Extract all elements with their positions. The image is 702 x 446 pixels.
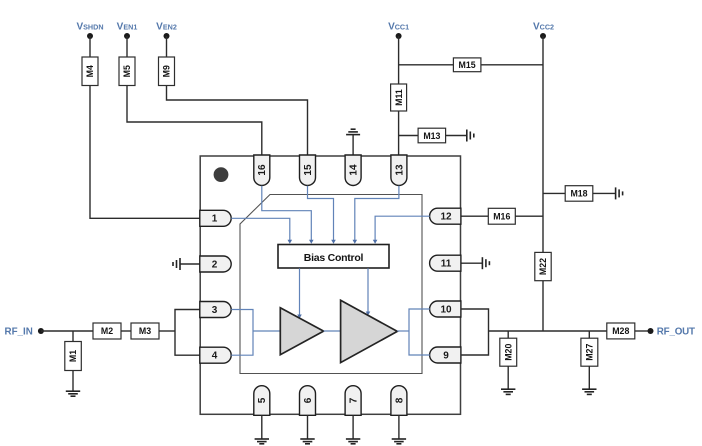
svg-text:M9: M9: [162, 65, 172, 77]
wire VEN1 to M5: [126, 36, 128, 57]
svg-text:VCC1: VCC1: [388, 22, 409, 33]
node VSHDN: [76, 22, 103, 39]
ground below M20: [501, 389, 515, 394]
svg-text:RF_IN: RF_IN: [5, 326, 33, 337]
wire M16 to VCC2 net: [515, 215, 543, 217]
wire M11 to pin 13: [398, 111, 400, 156]
component M9: [159, 57, 175, 86]
wire pin 13 to bias control: [353, 186, 399, 244]
svg-text:M16: M16: [493, 212, 510, 222]
wire M18 to ground: [593, 192, 616, 194]
wire M5 to pin 16: [127, 86, 262, 156]
ground below M27: [582, 389, 596, 394]
wire pin 1 to bias control: [231, 218, 292, 244]
ground right of M13: [467, 130, 474, 142]
component M16: [488, 208, 515, 224]
ground right of M18: [616, 187, 623, 199]
wire pin 14 to ground: [352, 135, 354, 156]
wire pin 12 to bias control: [373, 216, 430, 244]
svg-text:7: 7: [349, 397, 360, 403]
svg-text:M11: M11: [394, 89, 404, 106]
svg-text:M27: M27: [585, 344, 595, 361]
svg-text:M4: M4: [85, 65, 95, 77]
svg-text:3: 3: [212, 305, 218, 316]
component M3: [131, 323, 159, 339]
svg-text:14: 14: [349, 164, 360, 176]
wire branch to M18: [543, 192, 565, 194]
wire pin 8 to ground: [398, 415, 400, 439]
svg-text:10: 10: [440, 304, 452, 315]
component M13: [418, 128, 446, 143]
wire branch to M20: [507, 331, 509, 338]
wire branch to M13: [399, 135, 419, 137]
pin 1 indicator dot: [214, 167, 229, 182]
pin 15: [300, 155, 316, 186]
wire pin 6 to ground: [307, 415, 309, 439]
wire pin 2 to ground: [180, 263, 200, 265]
wire VCC1 to M11: [398, 36, 400, 84]
node VEN1: [117, 22, 138, 39]
bias control block U1: [278, 245, 389, 269]
wire RF_IN to M2: [41, 330, 93, 332]
svg-text:RF_OUT: RF_OUT: [657, 326, 695, 337]
wire pin 12 to M16: [461, 215, 489, 217]
wire VSHDN to M4: [89, 36, 91, 57]
svg-text:VSHDN: VSHDN: [76, 22, 103, 33]
wire M2 to M3: [121, 330, 131, 332]
component M20: [500, 338, 517, 366]
component M18: [565, 186, 593, 202]
svg-text:VEN2: VEN2: [156, 22, 177, 33]
IC package outline: [200, 156, 460, 414]
component M1: [65, 342, 82, 371]
wire bias control to amplifier A1: [297, 268, 302, 318]
node RF_OUT: [648, 326, 696, 337]
component M4: [82, 57, 98, 86]
svg-text:4: 4: [212, 351, 218, 362]
wire M1 to ground: [72, 371, 74, 392]
wire M28 to RF_OUT: [635, 330, 651, 332]
pin 14: [345, 155, 361, 186]
node VCC1: [388, 22, 409, 39]
component M15: [453, 58, 481, 72]
wire VCC2 vertical: [542, 36, 544, 252]
wire M9 to pin 15: [167, 86, 308, 156]
pin 7: [345, 386, 361, 416]
wire M13 to ground: [446, 135, 467, 137]
input bracket to pins 3 and 4: [175, 310, 200, 356]
component M27: [581, 338, 598, 366]
svg-text:M1: M1: [68, 350, 78, 362]
svg-text:VCC2: VCC2: [533, 22, 554, 33]
svg-text:M5: M5: [122, 65, 132, 77]
wire VCC1 branch to M15: [399, 64, 454, 66]
wire output line: [489, 330, 607, 332]
wire A1 to A2: [324, 330, 341, 332]
pin 10: [430, 301, 461, 317]
ground left of pin 2: [173, 258, 180, 270]
wire pin 15 to bias control: [308, 186, 336, 244]
node VCC2: [533, 22, 554, 39]
ground below pin 6: [300, 439, 314, 444]
ground below M1: [66, 391, 80, 396]
wire A2 to pins 10/9: [397, 309, 430, 355]
pin 4: [200, 347, 231, 363]
svg-text:9: 9: [443, 350, 449, 361]
svg-text:6: 6: [303, 397, 314, 403]
svg-text:M18: M18: [570, 189, 587, 199]
wire pin 11 to ground: [461, 262, 483, 264]
component M11: [391, 84, 407, 111]
svg-text:1: 1: [212, 214, 218, 225]
pin 8: [391, 386, 407, 416]
pin 5: [254, 386, 270, 416]
ground below pin 5: [255, 439, 269, 444]
svg-text:8: 8: [394, 397, 405, 403]
wire pin 5 to ground: [261, 415, 263, 439]
wire branch to M27: [588, 331, 590, 338]
wire M20 to ground: [507, 366, 509, 389]
node VEN2: [156, 22, 177, 39]
pin 9: [430, 347, 461, 363]
pin 13: [391, 155, 407, 186]
output bracket pins 10/9: [461, 309, 489, 355]
pin 3: [200, 302, 231, 318]
svg-text:16: 16: [257, 164, 268, 176]
ground right of pin 11: [482, 257, 489, 269]
svg-text:11: 11: [441, 259, 452, 270]
svg-text:Bias Control: Bias Control: [304, 252, 364, 264]
pin 6: [300, 386, 316, 416]
svg-text:M28: M28: [612, 326, 629, 336]
wire pin 7 to ground: [352, 415, 354, 439]
component M5: [119, 57, 135, 86]
wire M27 to ground: [588, 366, 590, 389]
input bracket pins 3/4 to amplifier A1: [231, 310, 280, 356]
wire M15 to VCC2 net: [481, 64, 543, 66]
pin 16: [254, 155, 270, 185]
svg-text:M15: M15: [459, 60, 476, 70]
wire M4 to pin 1: [90, 86, 200, 219]
component M22: [535, 252, 551, 280]
svg-text:5: 5: [257, 397, 268, 403]
svg-text:M22: M22: [538, 258, 548, 275]
pin 11: [430, 255, 461, 271]
amplifier A2: [341, 300, 398, 362]
wire branch to M1: [72, 331, 74, 342]
svg-text:15: 15: [303, 164, 314, 176]
svg-text:VEN1: VEN1: [117, 22, 138, 33]
wire M22 to output line: [542, 281, 544, 331]
svg-text:13: 13: [394, 164, 405, 176]
svg-text:M20: M20: [503, 344, 513, 361]
ground below pin 8: [392, 439, 406, 444]
svg-text:M3: M3: [139, 326, 151, 336]
amplifier A1: [280, 308, 323, 355]
wire VEN2 to M9: [166, 36, 168, 57]
pin 12: [430, 208, 461, 224]
pin 1: [200, 210, 231, 226]
svg-text:M13: M13: [423, 131, 440, 141]
die outline: [240, 195, 422, 374]
ground below pin 7: [346, 439, 360, 444]
node RF_IN: [5, 326, 44, 337]
pin 2: [200, 256, 231, 272]
component M28: [607, 323, 635, 339]
svg-text:M2: M2: [101, 326, 113, 336]
wire pin 16 to bias control: [262, 186, 314, 244]
wire M3 to input bracket: [159, 330, 175, 332]
wire bias control to amplifier A2: [366, 268, 371, 315]
svg-text:2: 2: [212, 259, 218, 270]
ground above pin 14: [346, 129, 360, 134]
svg-text:12: 12: [440, 212, 452, 223]
component M2: [93, 323, 121, 339]
